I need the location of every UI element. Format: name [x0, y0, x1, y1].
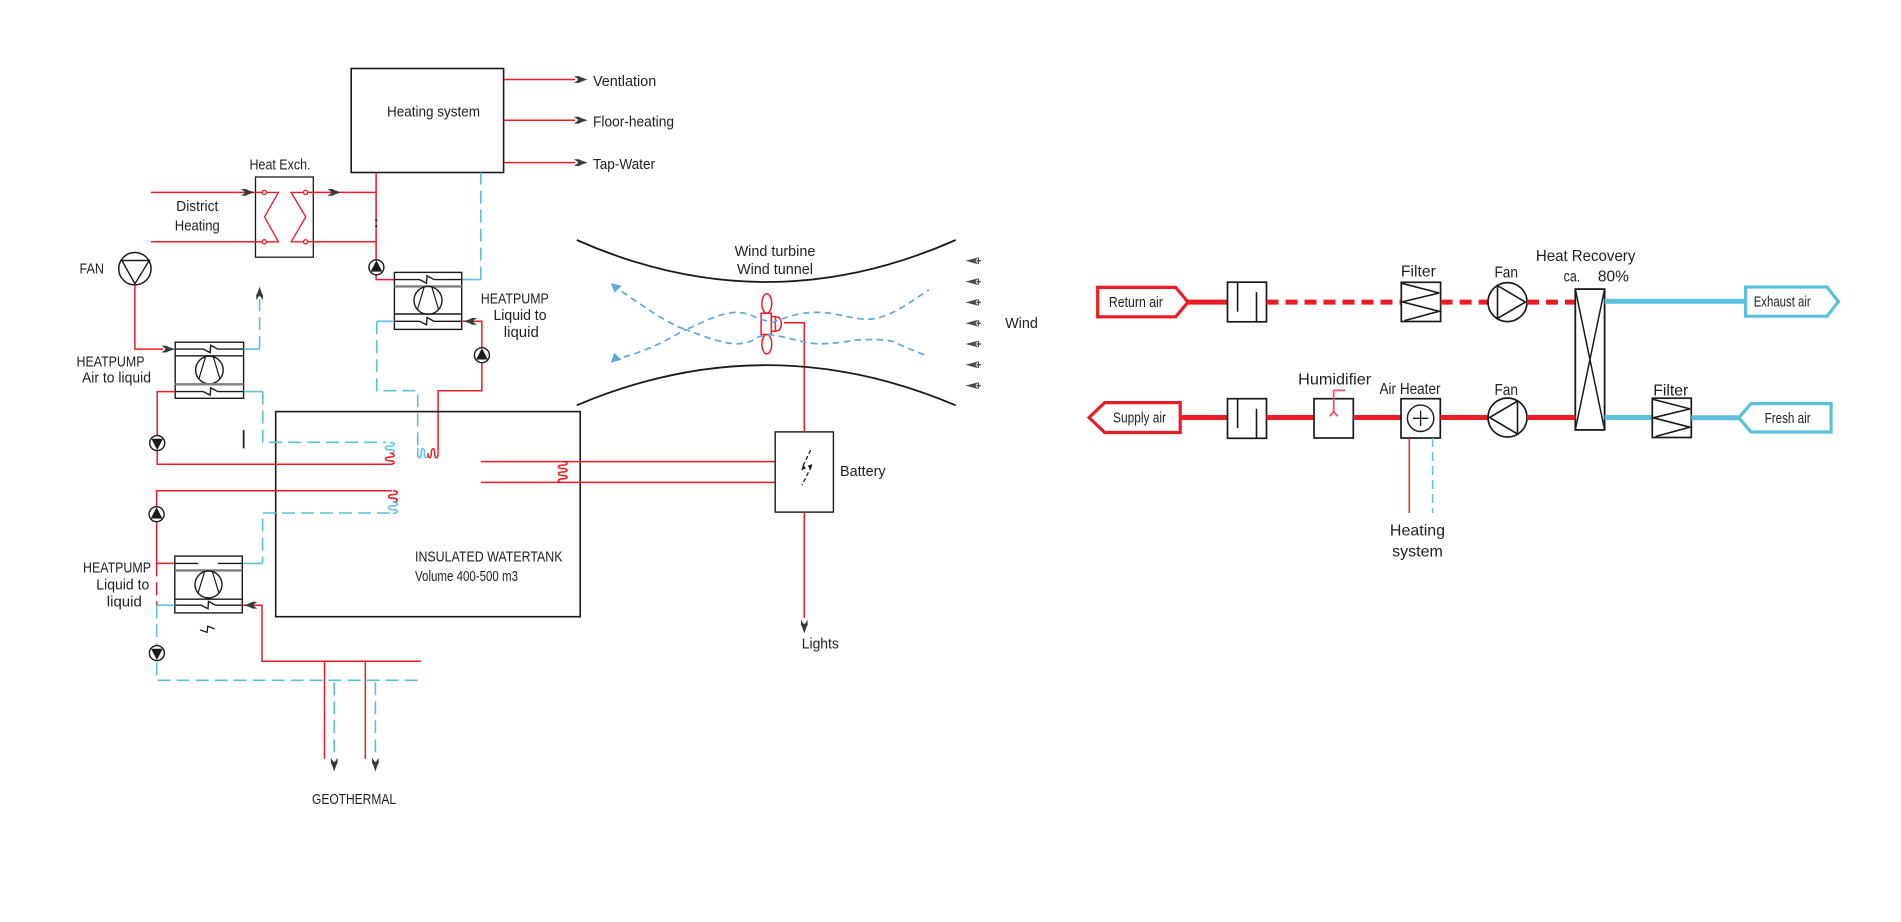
svg-text:District: District [176, 199, 218, 215]
tank coil1 cyan part [385, 443, 394, 454]
heatpump U1 liquid-to-liquid upper [394, 272, 461, 329]
svg-text:Heat Recovery: Heat Recovery [1536, 248, 1636, 265]
svg-text:80%: 80% [1598, 269, 1629, 286]
duct fan2 to air heater [1440, 415, 1488, 420]
wire red battery to lights [803, 512, 805, 618]
duct heat recovery to filter2 [1605, 415, 1653, 420]
svg-text:Fan: Fan [1494, 265, 1518, 282]
svg-text:Supply air: Supply air [1113, 411, 1166, 427]
tank coil1 red part [385, 453, 394, 464]
junction dots [375, 219, 377, 221]
pump geothermal circuit [149, 646, 164, 661]
svg-text:Heating system: Heating system [387, 105, 480, 121]
duct heat recovery to fan2 [1527, 415, 1575, 420]
wire cyan heatpump1 to tank coil (dashed) [377, 320, 395, 322]
svg-text:liquid: liquid [504, 325, 539, 341]
svg-text:Liquid to: Liquid to [494, 308, 547, 324]
wire cyan heatpump3 to geothermal (dashed) [157, 604, 175, 606]
exhaust air tag [1746, 287, 1839, 316]
svg-text:Fan: Fan [1494, 382, 1518, 399]
wire red geothermal to heatpump3 [242, 605, 421, 661]
svg-text:Air to liquid: Air to liquid [82, 371, 151, 387]
duct air heater to humidifier [1353, 415, 1401, 420]
svg-text:Heating: Heating [1390, 523, 1445, 540]
svg-text:Battery: Battery [840, 464, 886, 480]
heatpump U2 air-to-liquid [175, 342, 243, 398]
duct heat recovery to exhaust [1605, 299, 1746, 304]
wind tunnel upper wall [577, 240, 956, 282]
tank coil2 red part [389, 491, 398, 502]
duct damper1 to filter1 (dashed) [1267, 300, 1402, 305]
wire red tank to battery lower [481, 481, 775, 483]
heat exchanger left coil [265, 192, 279, 241]
wire red heatpump1 to tank coil via pump [438, 321, 482, 453]
svg-text:Tap-Water: Tap-Water [593, 157, 655, 173]
wire district heating return [151, 241, 262, 243]
svg-text:Floor-heating: Floor-heating [593, 114, 674, 130]
duct fan1 to heat recovery (dashed) [1527, 300, 1575, 305]
fan1 [1488, 283, 1527, 322]
svg-text:Fresh air: Fresh air [1765, 411, 1811, 427]
svg-text:Filter: Filter [1653, 382, 1689, 399]
filter2 [1652, 398, 1691, 437]
FAN symbol [119, 253, 151, 285]
duct damper2 to supply air [1180, 415, 1227, 420]
duct filter2 to fresh air [1691, 415, 1739, 420]
svg-text:Humidifier: Humidifier [1298, 372, 1372, 389]
svg-text:liquid: liquid [107, 594, 142, 610]
fresh air tag [1739, 404, 1831, 432]
wire cyan exhaust up from heatpump2 (dashed with arrow) [244, 348, 260, 350]
wind tunnel lower wall [577, 365, 956, 405]
svg-text:Return air: Return air [1109, 295, 1163, 311]
wire red turbine to battery [784, 323, 804, 432]
wire floor-heating output [504, 119, 575, 121]
damper2 [1228, 399, 1267, 439]
svg-text:Exhaust air: Exhaust air [1754, 295, 1811, 311]
fan2 [1488, 398, 1527, 437]
filter1 [1401, 282, 1440, 321]
wire ventilation output [504, 79, 575, 81]
svg-text:system: system [1392, 544, 1443, 561]
svg-text:Ventlation: Ventlation [593, 74, 656, 90]
wire red supply to tank coil2 via pump [157, 491, 392, 564]
displaced break mark below heatpump U3 [200, 626, 215, 632]
RIGHT-SECTION [1089, 248, 1838, 561]
wire heat exch to riser top [308, 191, 377, 193]
svg-text:GEOTHERMAL: GEOTHERMAL [312, 792, 396, 808]
svg-text:HEATPUMP: HEATPUMP [83, 561, 151, 577]
tank coil3 horizontal cyan part [418, 448, 428, 458]
wire red air heater to heating system [1408, 438, 1410, 513]
geothermal cyan bore 1 (dashed) [333, 682, 335, 757]
pump heatpump3 circuit [149, 507, 164, 522]
svg-text:FAN: FAN [80, 262, 105, 278]
svg-text:Heating: Heating [175, 219, 220, 235]
wire tap-water output [504, 162, 575, 164]
geothermal red bore 2 [364, 661, 366, 759]
svg-text:Volume 400-500 m3: Volume 400-500 m3 [415, 569, 518, 585]
svg-text:INSULATED WATERTANK: INSULATED WATERTANK [415, 550, 563, 566]
battery box [775, 432, 833, 512]
return air tag [1098, 287, 1188, 316]
supply air tag [1089, 403, 1180, 433]
svg-text:Wind turbine: Wind turbine [735, 244, 816, 260]
svg-text:Filter: Filter [1401, 264, 1437, 281]
duct return air to damper1 [1188, 300, 1228, 305]
wire heat exch to riser bottom [308, 241, 377, 243]
wire red dashed drop left of heatpump U3 [156, 563, 158, 605]
wire red tank to battery upper [481, 461, 775, 463]
wire fan to heatpump2 [135, 285, 163, 349]
wire red heatpump2 to tank coil1 via pump [157, 392, 391, 465]
duct filter1 to fan1 (dashed) [1441, 300, 1488, 305]
wire cyan heatpump2 to tank coil1 (dashed) [244, 391, 263, 393]
wind turbine rotor [761, 294, 781, 354]
heatpump U3 liquid-to-liquid lower [175, 556, 243, 613]
battery lightning symbol [802, 450, 811, 485]
geothermal cyan bore 2 (dashed) [374, 682, 376, 757]
LEFT-SECTION [77, 69, 1038, 809]
svg-text:HEATPUMP: HEATPUMP [481, 291, 549, 307]
wire cyan tank coil2 to heatpump3 (dashed) [263, 513, 390, 563]
duct humidifier to damper2 [1267, 415, 1315, 420]
svg-text:Lights: Lights [802, 637, 839, 653]
svg-text:Heat Exch.: Heat Exch. [250, 158, 311, 174]
heat recovery unit [1575, 289, 1604, 430]
svg-text:HEATPUMP: HEATPUMP [77, 355, 145, 371]
heat exchanger box [256, 177, 314, 257]
pump heating circuit [369, 260, 384, 275]
svg-text:ca.: ca. [1564, 269, 1581, 286]
tank coil2 cyan part [389, 502, 398, 513]
humidifier [1314, 399, 1353, 438]
svg-text:Air Heater: Air Heater [1380, 381, 1442, 398]
damper1 [1228, 282, 1267, 322]
level mark line [243, 430, 245, 448]
wire cyan air heater to heating system (dashed) [1432, 438, 1434, 513]
air heater [1401, 399, 1440, 438]
geothermal red bore 1 [324, 661, 326, 759]
svg-text:Liquid to: Liquid to [96, 578, 149, 594]
wire red riser heating system to heatpump1 [376, 173, 394, 280]
wind arrows column [966, 257, 981, 389]
pump heatpump1 circuit [474, 348, 489, 363]
wind flow dashed line lower [613, 330, 928, 360]
wire district heating supply [151, 191, 262, 193]
tank coil3 horizontal red part [428, 449, 438, 458]
tank coil4 electric heater [558, 462, 567, 483]
heat exchanger right coil [291, 192, 306, 241]
heating system box [351, 69, 503, 173]
svg-text:Wind: Wind [1005, 316, 1038, 332]
svg-text:Wind tunnel: Wind tunnel [737, 262, 813, 278]
wire cyan return to heating system (dashed) [462, 279, 481, 281]
wind flow dashed line upper [613, 286, 930, 330]
pump heatpump2 circuit [150, 436, 165, 451]
insulated watertank box [276, 412, 581, 617]
